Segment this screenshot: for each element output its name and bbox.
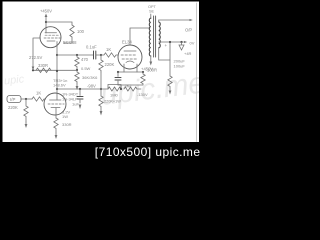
wire grid leak to bias rail — [100, 72, 102, 96]
tube V1b (lower triode) — [44, 93, 66, 115]
svg-text:-130V: -130V — [137, 92, 148, 97]
watermark faint left — [3, 66, 206, 112]
node 330R left — [32, 69, 34, 71]
stub to bias row — [120, 85, 122, 89]
input jack I/P — [7, 96, 21, 103]
plate wire to OPT — [130, 28, 150, 45]
resistor 2K2 on rail — [124, 87, 141, 91]
svg-text:470: 470 — [81, 57, 89, 62]
svg-text:I/P: I/P — [10, 97, 15, 102]
bottom watermark bar — [0, 142, 204, 162]
svg-text:SE: SE — [149, 10, 155, 14]
svg-text:100: 100 — [77, 29, 85, 34]
cathode resistor — [141, 72, 145, 85]
svg-text:220K+1W: 220K+1W — [104, 100, 121, 104]
cathode wire down from V1a — [56, 42, 58, 56]
node mid — [56, 54, 58, 56]
svg-text:36K/3K6: 36K/3K6 — [82, 75, 98, 80]
wire mid rail — [57, 54, 93, 56]
input wire — [21, 98, 32, 100]
node 470 top — [76, 54, 78, 56]
node capacitor 1uF top — [79, 88, 81, 90]
tube EL34 output — [118, 45, 142, 69]
svg-text:330R: 330R — [62, 122, 72, 127]
resistor 220K input — [24, 99, 28, 122]
cathode rail EL34 — [118, 71, 143, 73]
primary bottom +450V arrow — [150, 56, 152, 63]
svg-text:EL34: EL34 — [122, 40, 132, 45]
resistor 220K grid leak — [99, 55, 103, 72]
+450V arrow — [45, 16, 47, 33]
resistor 470 — [75, 55, 79, 70]
ground triangle 0V — [179, 42, 184, 50]
bypass capacitor — [117, 72, 119, 85]
feedback resistor — [168, 76, 172, 91]
primary winding — [149, 18, 151, 56]
secondary winding — [159, 22, 161, 48]
resistor 330R — [36, 68, 51, 72]
tube V1a (upper triode) — [40, 27, 61, 48]
svg-text:100uF: 100uF — [174, 64, 186, 69]
node junction top — [45, 21, 47, 23]
node 1M0/2K2 — [120, 88, 122, 90]
secondary bottom loop to 0V line — [159, 42, 170, 60]
resistor 100 (top) — [70, 25, 74, 37]
wire resistor 100 to tube V1a — [64, 37, 72, 43]
resistor 1K grid stopper — [101, 53, 118, 57]
svg-text:272.5V: 272.5V — [29, 55, 42, 60]
svg-text:OPT: OPT — [148, 5, 156, 9]
resistor 1M0 on rail — [108, 87, 121, 91]
core lines — [154, 16, 156, 57]
node cathode left — [117, 71, 119, 73]
wire 330R rail — [33, 69, 77, 71]
cathode wire — [55, 108, 57, 118]
svg-text:1N-34LF: 1N-34LF — [62, 97, 78, 102]
resistor 1K input — [32, 97, 46, 101]
ground arrow 36K — [76, 83, 78, 87]
svg-text:1M0: 1M0 — [110, 93, 119, 98]
svg-text:1K: 1K — [106, 47, 111, 52]
svg-text:+450V: +450V — [141, 67, 153, 72]
node bias rail left — [56, 88, 58, 90]
svg-text:1W: 1W — [62, 114, 68, 119]
ground arrow grid leak — [100, 111, 103, 116]
resistor 220K 1W lower — [99, 96, 103, 112]
resistor 330 cathode — [54, 118, 58, 133]
svg-text:+450V: +450V — [40, 9, 52, 14]
ground feedback — [169, 91, 172, 95]
node grid EL34 — [100, 54, 102, 56]
bypass loop over 1M0 — [108, 85, 121, 90]
ground V1b — [55, 133, 57, 136]
secondary top out O/P — [159, 20, 190, 22]
node cathode right — [142, 71, 144, 73]
svg-text:2K2: 2K2 — [125, 83, 133, 88]
plate wire up — [56, 55, 58, 100]
svg-text:-98V: -98V — [87, 84, 96, 89]
resistor 36K — [75, 70, 79, 83]
secondary tap 0V — [159, 41, 184, 43]
svg-text:0V: 0V — [190, 41, 195, 46]
svg-text:220K: 220K — [8, 105, 18, 110]
svg-text:0.5W: 0.5W — [81, 66, 91, 71]
node 470/36K — [76, 69, 78, 71]
svg-text:148.6V: 148.6V — [53, 83, 66, 88]
bias rail -98V — [57, 88, 108, 90]
cathode bottom rail — [118, 84, 143, 86]
svg-text:+: + — [165, 43, 168, 48]
schematic inner border — [196, 3, 198, 142]
feedback wire down — [169, 60, 171, 76]
svg-text:upic: upic — [3, 73, 25, 87]
capacitor 1uF — [79, 89, 81, 103]
svg-text:+4R: +4R — [184, 51, 192, 56]
svg-text:330R: 330R — [38, 63, 48, 68]
node 0V ground tap — [180, 41, 182, 43]
cathode stubs — [124, 64, 137, 72]
wire to resistor 100 — [46, 22, 72, 25]
ground input — [25, 122, 27, 125]
svg-text:1K: 1K — [36, 91, 41, 96]
svg-text:1uF: 1uF — [72, 102, 79, 107]
svg-text:O/P: O/P — [185, 28, 192, 33]
svg-text:220K: 220K — [105, 62, 115, 67]
svg-text:0.1uF: 0.1uF — [86, 45, 97, 50]
wire grid V1a down with arrow — [32, 38, 34, 68]
svg-text:ECC88: ECC88 — [63, 40, 77, 45]
